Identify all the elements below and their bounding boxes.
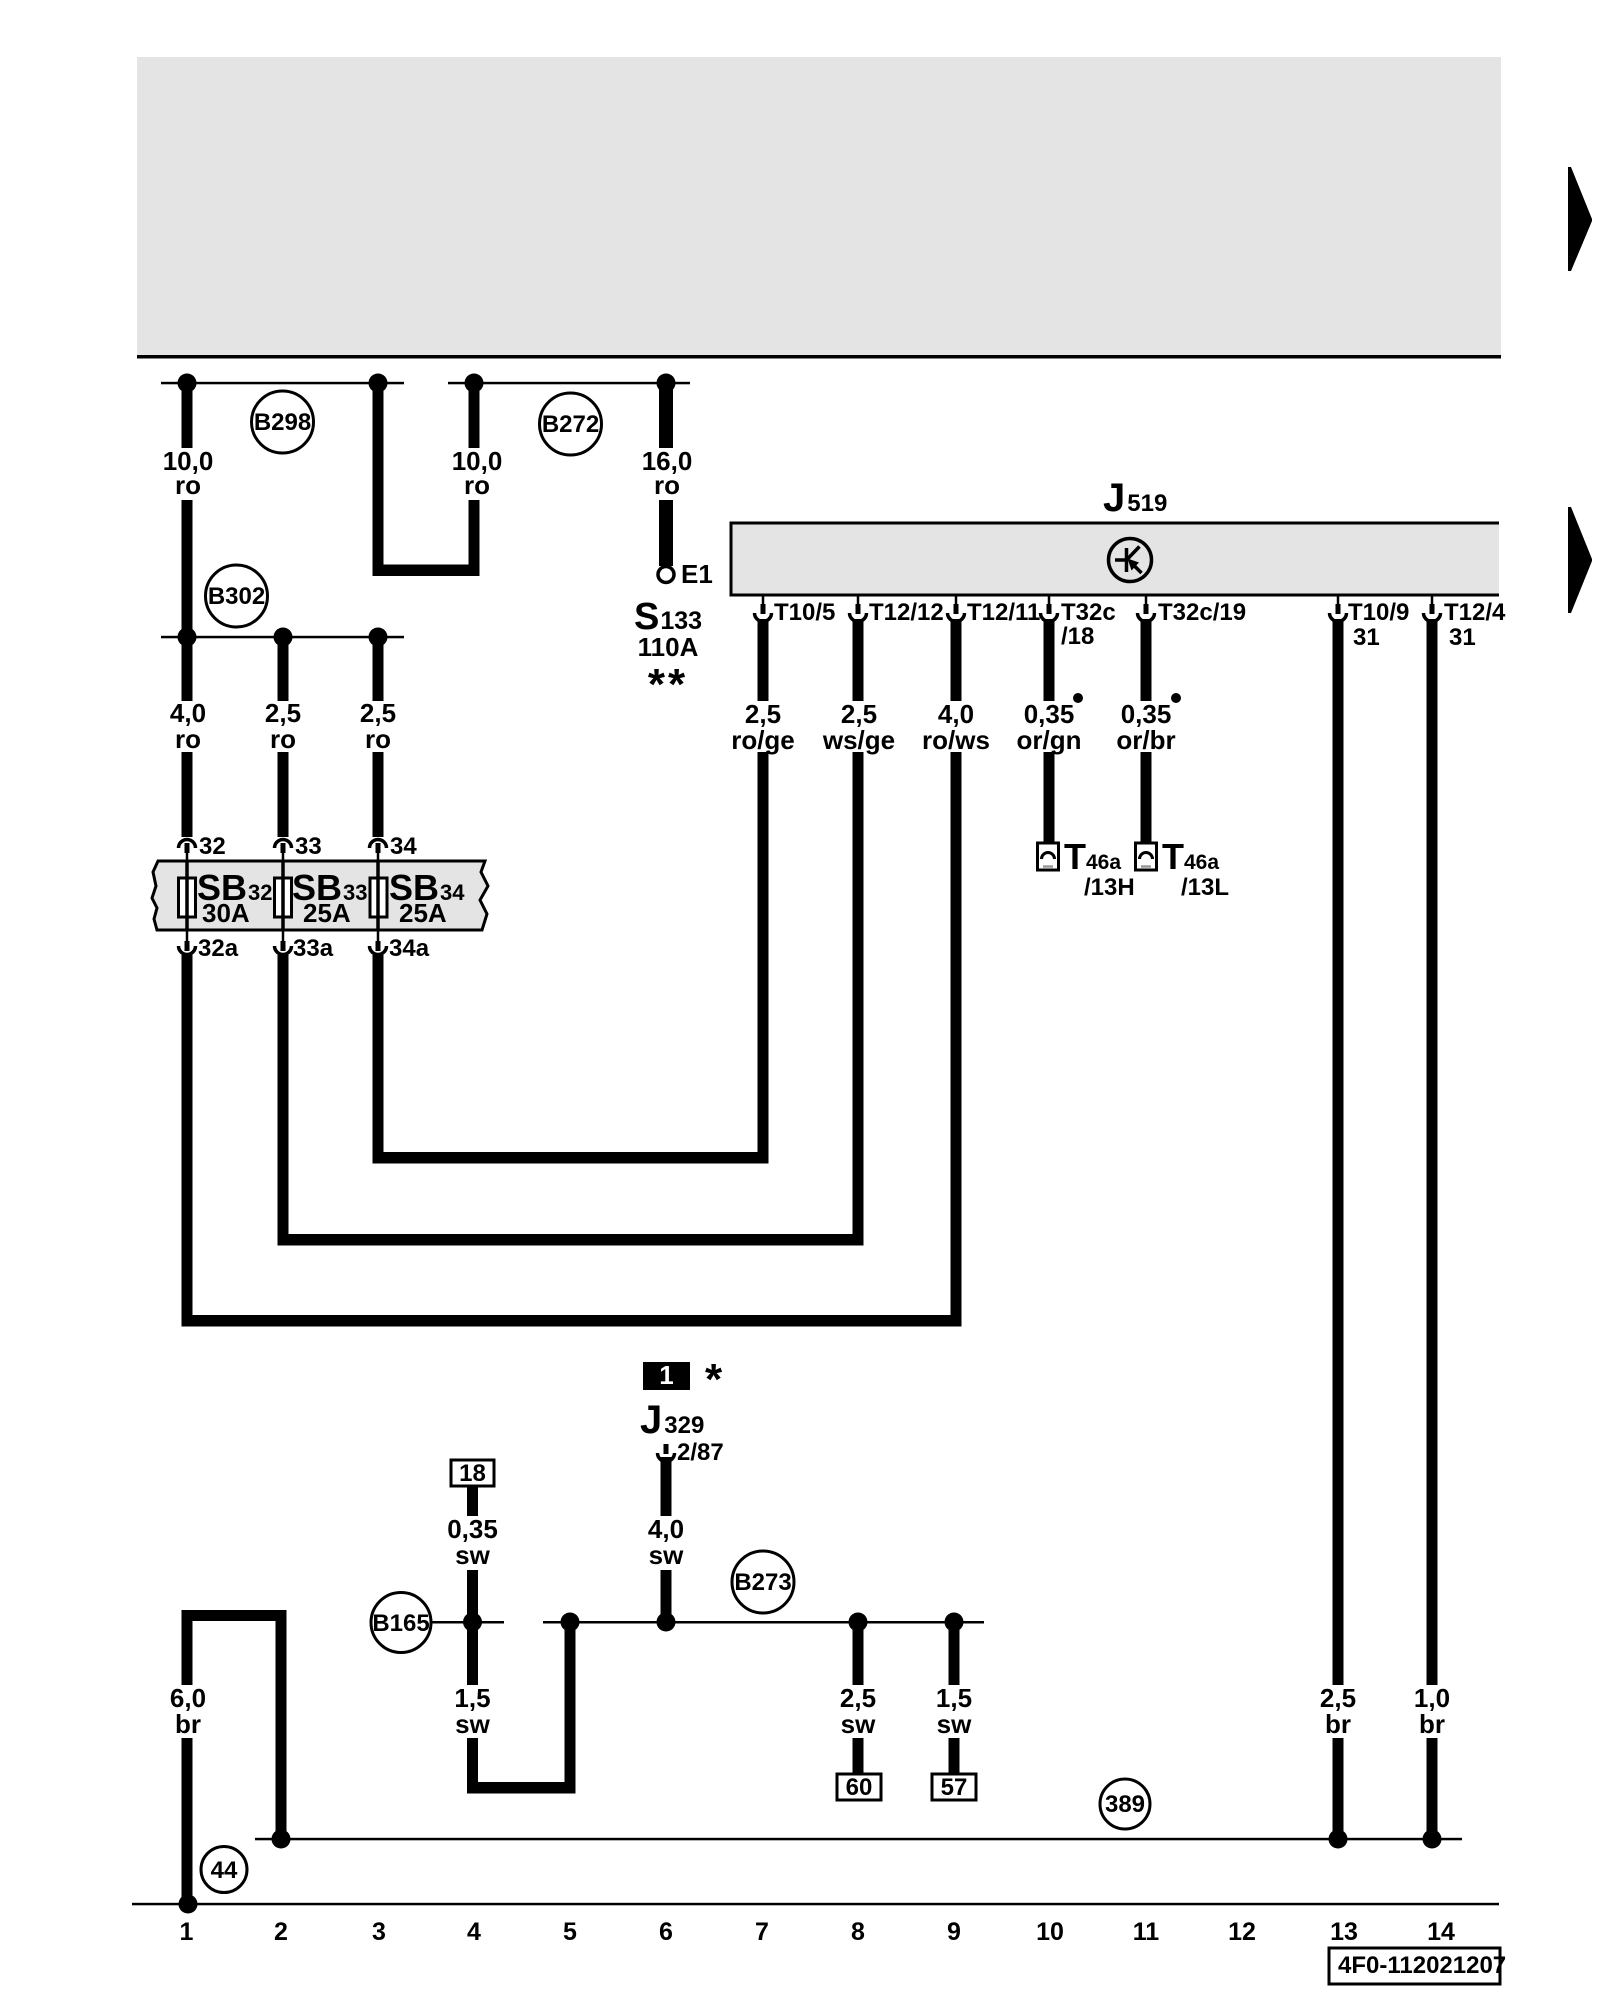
wire col3 to U-bend <box>373 383 384 576</box>
terminal 18 box <box>451 1460 494 1487</box>
wire col5 riser <box>565 1622 576 1794</box>
terminal 60 box <box>837 1774 881 1801</box>
svg-text:7: 7 <box>755 1918 769 1946</box>
svg-text:33a: 33a <box>293 935 334 962</box>
ground line 44 <box>132 1903 1499 1906</box>
battery bus segment A <box>161 382 404 385</box>
svg-text:10: 10 <box>1036 1918 1064 1946</box>
wire col1 6,0 br <box>170 1610 206 1909</box>
wire col3 fuse output to inner U <box>373 955 384 1164</box>
svg-text:6: 6 <box>659 1918 673 1946</box>
wire col1 fuse output to outer U <box>182 955 193 1327</box>
svg-text:ro: ro <box>175 470 201 500</box>
fuse SB32 pin 32a <box>179 930 239 962</box>
svg-text:3: 3 <box>372 1918 386 1946</box>
svg-text:9: 9 <box>947 1918 961 1946</box>
wire col13 2,5 br <box>1320 619 1356 1844</box>
svg-text:T10/5: T10/5 <box>774 599 835 626</box>
junction dot col2/389 <box>272 1830 291 1849</box>
svg-text:4F0-112021207: 4F0-112021207 <box>1338 1952 1506 1979</box>
svg-text:sw: sw <box>649 1540 684 1570</box>
svg-text:32: 32 <box>199 833 226 860</box>
connection B273 <box>732 1551 794 1613</box>
svg-text:18: 18 <box>459 1460 486 1487</box>
ground line 389 <box>255 1838 1462 1841</box>
svg-text:13: 13 <box>1330 1918 1358 1946</box>
svg-text:14: 14 <box>1427 1918 1455 1946</box>
svg-text:34a: 34a <box>389 935 430 962</box>
svg-text:2/87: 2/87 <box>677 1439 724 1466</box>
svg-text:B298: B298 <box>254 409 311 436</box>
svg-text:ro/ge: ro/ge <box>731 725 795 755</box>
junction dot col4/bus B <box>465 374 484 393</box>
ground designation 44 <box>201 1847 247 1893</box>
part number box 4F0-112021207 <box>1329 1948 1506 1984</box>
svg-text:44: 44 <box>211 1857 238 1884</box>
junction dot col1/bus A <box>178 374 197 393</box>
wire col1 4,0 ro <box>170 637 206 837</box>
svg-text:ro: ro <box>464 470 490 500</box>
fuse SB34 pin 34a <box>370 930 430 962</box>
svg-text:/18: /18 <box>1061 623 1094 650</box>
svg-text:389: 389 <box>1105 1791 1145 1818</box>
junction dot col2/bus2 <box>274 628 293 647</box>
J519 pin T10/9 31 <box>1330 596 1410 651</box>
outer U bottom bar <box>182 1315 962 1327</box>
K symbol in J519 <box>1109 539 1152 582</box>
svg-text:br: br <box>1325 1709 1351 1739</box>
fuse S133 label <box>634 596 702 709</box>
svg-text:25A: 25A <box>303 898 351 928</box>
junction dot col6/bus3 <box>657 1613 676 1632</box>
continuation arrow top right <box>1568 167 1592 271</box>
junction dot col14/389 <box>1423 1830 1442 1849</box>
wire col8 2,5 sw <box>840 1622 876 1774</box>
junction dot col9/bus3 <box>945 1613 964 1632</box>
svg-text:J519: J519 <box>1103 476 1167 520</box>
fuse SB33 pin 33 <box>275 833 322 862</box>
wire col1 10,0 ro upper <box>163 383 214 637</box>
fuse SB32 <box>179 861 273 930</box>
J519 pin T12/4 31 <box>1424 596 1507 651</box>
svg-text:sw: sw <box>455 1709 490 1739</box>
wire col10 0,35 or/gn <box>1017 619 1084 843</box>
J519 pin T32c/19 <box>1138 596 1247 626</box>
wire col2 riser to ground line 389 <box>276 1610 287 1839</box>
svg-text:*: * <box>705 1355 723 1404</box>
bus3 segment left <box>431 1621 504 1624</box>
svg-text:11: 11 <box>1133 1918 1160 1946</box>
svg-text:B273: B273 <box>734 1569 791 1596</box>
connection B302 <box>206 565 268 627</box>
svg-text:T46a: T46a <box>1162 836 1219 877</box>
continuation arrow beside J519 <box>1568 507 1592 613</box>
svg-text:110A: 110A <box>638 632 699 662</box>
connector T46a/13L <box>1136 836 1230 901</box>
relay plate header box <box>137 57 1501 359</box>
svg-text:E1: E1 <box>681 559 713 589</box>
fuse SB33 <box>275 861 368 930</box>
fuse SB33 pin 33a <box>275 930 334 962</box>
svg-text:T32c/19: T32c/19 <box>1158 599 1246 626</box>
svg-text:25A: 25A <box>399 898 447 928</box>
inner U bottom bar <box>373 1152 769 1164</box>
svg-text:T12/12: T12/12 <box>869 599 944 626</box>
terminal 57 box <box>932 1774 976 1801</box>
U-bend bottom col4-col5 <box>467 1782 576 1794</box>
svg-text:J329: J329 <box>640 1398 704 1442</box>
svg-text:31: 31 <box>1353 624 1380 651</box>
svg-text:ro: ro <box>175 724 201 754</box>
ground point E1 <box>658 559 713 589</box>
svg-text:/13L: /13L <box>1181 874 1229 901</box>
wire col7 2,5 ro/ge <box>731 619 795 1164</box>
J519 pin T12/12 <box>850 596 944 626</box>
svg-text:sw: sw <box>937 1709 972 1739</box>
svg-text:B302: B302 <box>208 583 265 610</box>
wire col11 0,35 or/br <box>1116 619 1181 843</box>
fuse SB34 <box>370 861 465 930</box>
battery bus segment B <box>448 382 690 385</box>
ground designation 389 <box>1100 1779 1150 1829</box>
svg-text:33: 33 <box>295 833 322 860</box>
svg-text:5: 5 <box>563 1918 577 1946</box>
svg-text:32a: 32a <box>198 935 239 962</box>
wire col9 1,5 sw <box>936 1622 972 1774</box>
junction dot col3/bus A <box>369 374 388 393</box>
svg-text:sw: sw <box>455 1540 490 1570</box>
svg-text:B272: B272 <box>542 411 599 438</box>
wire col6 4,0 sw <box>648 1457 684 1622</box>
svg-text:or/gn: or/gn <box>1017 725 1082 755</box>
fuse panel strip <box>152 861 488 930</box>
svg-text:T12/4: T12/4 <box>1444 599 1506 626</box>
wire col4 0,35 sw <box>447 1486 498 1622</box>
wire col2 fuse output to middle U <box>278 955 289 1246</box>
svg-text:30A: 30A <box>202 898 250 928</box>
connection B298 <box>252 391 314 453</box>
junction dot col4/bus3 <box>463 1613 482 1632</box>
svg-text:B165: B165 <box>372 1610 429 1637</box>
svg-text:31: 31 <box>1449 624 1476 651</box>
svg-text:34: 34 <box>390 833 417 860</box>
svg-text:2: 2 <box>274 1918 288 1946</box>
svg-text:T10/9: T10/9 <box>1348 599 1409 626</box>
wire col4 10,0 ro <box>452 383 503 576</box>
junction dot col3/bus2 <box>369 628 388 647</box>
svg-text:57: 57 <box>941 1774 968 1801</box>
fuse SB34 pin 34 <box>370 833 418 862</box>
svg-text:T32c: T32c <box>1061 599 1116 626</box>
svg-text:ro: ro <box>654 470 680 500</box>
corner bend bottom left <box>182 1610 287 1621</box>
junction dot col6/bus B <box>657 374 676 393</box>
connector T46a/13H <box>1038 836 1135 901</box>
svg-text:ro: ro <box>270 724 296 754</box>
svg-text:**: ** <box>648 660 688 709</box>
wire col4 1,5 sw lower <box>454 1622 490 1788</box>
wire col8 2,5 ws/ge <box>822 619 895 1246</box>
svg-text:br: br <box>175 1709 201 1739</box>
connection B165 <box>371 1593 431 1653</box>
svg-text:ro/ws: ro/ws <box>922 725 990 755</box>
svg-text:ro: ro <box>365 724 391 754</box>
svg-text:or/br: or/br <box>1116 725 1175 755</box>
wire col6 16,0 ro <box>642 383 693 566</box>
svg-text:12: 12 <box>1228 1918 1256 1946</box>
fuse SB32 pin 32 <box>179 833 226 862</box>
coded output 1 box <box>643 1355 723 1404</box>
connection B272 <box>540 393 602 455</box>
junction dot col5/bus3 <box>561 1613 580 1632</box>
svg-text:T46a: T46a <box>1064 836 1121 877</box>
svg-text:ws/ge: ws/ge <box>822 725 895 755</box>
middle U bottom bar <box>278 1234 864 1246</box>
svg-text:sw: sw <box>841 1709 876 1739</box>
J329 pin 2/87 <box>658 1439 724 1466</box>
second bus line <box>161 636 404 639</box>
junction dot col1/44 <box>179 1895 198 1914</box>
svg-text:1: 1 <box>180 1918 194 1946</box>
J519 pin T32c/18 <box>1041 596 1116 650</box>
svg-text:4: 4 <box>467 1918 481 1946</box>
wire col9 4,0 ro/ws <box>922 619 990 1327</box>
wire col14 1,0 br <box>1414 619 1450 1844</box>
svg-text:60: 60 <box>846 1774 873 1801</box>
J519 pin T10/5 <box>755 596 836 626</box>
control unit J519 box <box>730 522 1500 597</box>
svg-text:br: br <box>1419 1709 1445 1739</box>
svg-text:8: 8 <box>851 1918 865 1946</box>
svg-text:T12/11: T12/11 <box>967 599 1040 626</box>
junction dot col13/389 <box>1329 1830 1348 1849</box>
wire col2 2,5 ro <box>265 637 301 837</box>
wire col3 2,5 ro <box>360 637 396 837</box>
svg-text:1: 1 <box>659 1360 673 1390</box>
svg-text:/13H: /13H <box>1084 874 1135 901</box>
junction dot col8/bus3 <box>849 1613 868 1632</box>
junction dot col1/bus2 <box>178 628 197 647</box>
bus3 segment right <box>543 1621 984 1624</box>
J519 pin T12/11 <box>948 596 1041 626</box>
U-bend bottom bar col3-col4 <box>373 565 480 577</box>
